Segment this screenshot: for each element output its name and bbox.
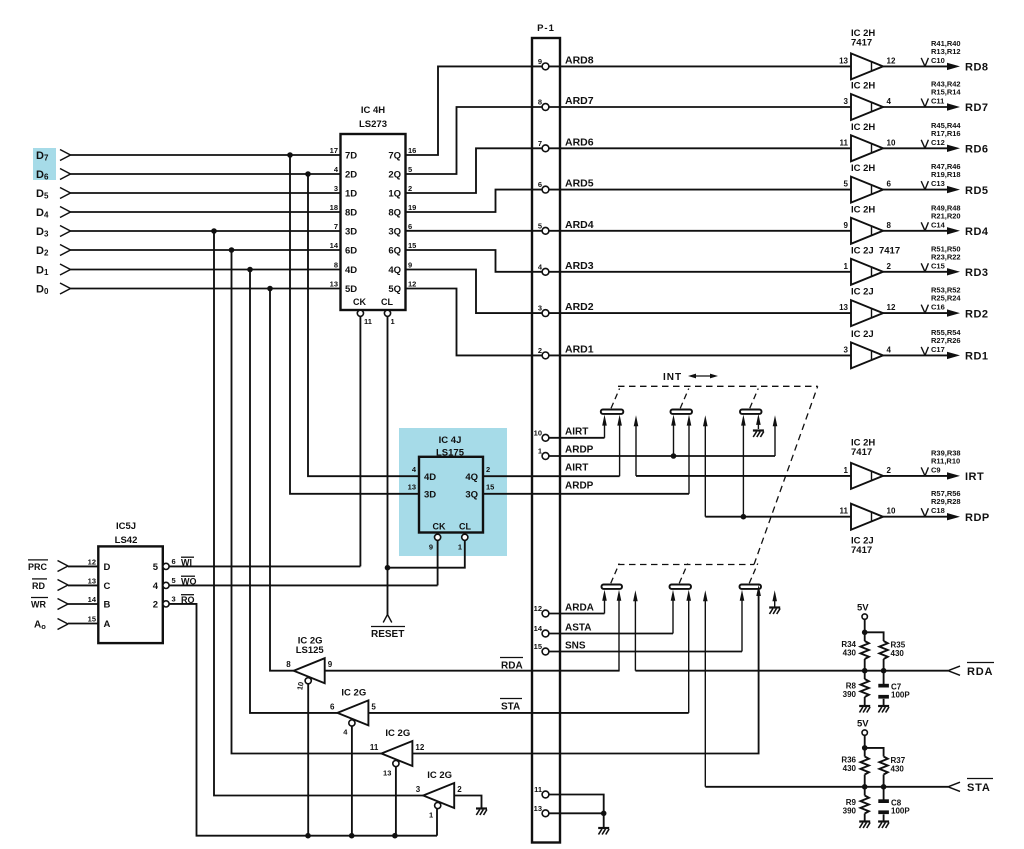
wire S4 right to RDA xyxy=(618,597,620,671)
junction RESET branch xyxy=(385,565,391,571)
wire S3/spare to RDP buffer xyxy=(703,415,851,520)
svg-text:ARD5: ARD5 xyxy=(565,178,594,190)
wire ASTA pin14 to S5 xyxy=(549,590,676,634)
svg-text:1: 1 xyxy=(538,447,542,456)
svg-text:5: 5 xyxy=(172,576,176,585)
buffer IC 2G gate C xyxy=(370,728,425,777)
svg-text:1Q: 1Q xyxy=(388,189,401,200)
svg-text:IC 2H: IC 2H xyxy=(851,122,875,133)
svg-text:5: 5 xyxy=(408,165,412,174)
wire to ground xyxy=(603,813,605,827)
wire D3 to IC2G pin3 xyxy=(214,231,423,796)
svg-text:RD7: RD7 xyxy=(965,102,989,114)
wire 8Q to P-1 pin 6 xyxy=(406,190,543,212)
wire D1 to LS273 xyxy=(71,269,341,271)
wire ARD2 to buffer xyxy=(549,312,851,314)
svg-text:ARD7: ARD7 xyxy=(565,95,594,107)
svg-text:11: 11 xyxy=(370,743,379,752)
wire RDA right segment xyxy=(635,666,960,675)
svg-text:430: 430 xyxy=(891,649,905,658)
svg-text:5Q: 5Q xyxy=(388,284,401,295)
wire R36/R37 to STA xyxy=(862,775,886,790)
svg-text:3D: 3D xyxy=(424,490,436,501)
svg-text:CL: CL xyxy=(459,522,471,532)
net W0 label xyxy=(181,576,197,586)
wire RESET branch to LS175 CL xyxy=(388,541,465,568)
wire ARD7 to buffer xyxy=(549,106,851,108)
svg-text:430: 430 xyxy=(843,764,857,773)
svg-text:7: 7 xyxy=(334,222,338,231)
wire 6Q to P-1 pin 4 xyxy=(406,250,543,272)
svg-text:3: 3 xyxy=(844,97,849,106)
svg-text:7417: 7417 xyxy=(851,545,872,556)
buffer RD1 driver 7417 xyxy=(844,329,892,369)
buffer RD5 driver 7417 xyxy=(844,163,892,203)
svg-text:9: 9 xyxy=(844,221,849,230)
svg-text:CK: CK xyxy=(353,297,366,307)
svg-text:A: A xyxy=(104,619,111,630)
svg-text:IC 2G: IC 2G xyxy=(427,770,452,781)
svg-text:C12: C12 xyxy=(931,138,945,147)
svg-text:3D: 3D xyxy=(345,227,357,238)
svg-text:15: 15 xyxy=(486,483,494,492)
power 5V (STA) xyxy=(857,719,869,736)
svg-text:5V: 5V xyxy=(857,719,869,730)
junction IC2G enable 13 xyxy=(392,833,398,839)
wire D7 to LS175 3D xyxy=(290,155,419,494)
svg-text:ARDA: ARDA xyxy=(565,603,594,614)
capacitor C7 100P xyxy=(878,671,910,705)
svg-text:STA: STA xyxy=(967,782,991,794)
svg-text:ARD6: ARD6 xyxy=(565,136,594,148)
svg-text:R15,R14: R15,R14 xyxy=(931,88,961,97)
wire 5V to resistors xyxy=(862,619,884,641)
svg-text:IC 2G: IC 2G xyxy=(385,728,410,739)
buffer IC 2G gate B xyxy=(330,687,376,736)
wire 1Q to P-1 pin 7 xyxy=(406,148,543,193)
svg-text:6: 6 xyxy=(538,180,542,189)
svg-text:7D: 7D xyxy=(345,151,357,162)
dashed linkage bus lower xyxy=(618,564,754,566)
value labels R55,R54 R27,R26 C17 xyxy=(921,328,961,356)
junction pins 11/13 xyxy=(601,811,607,817)
svg-text:RD8: RD8 xyxy=(965,62,989,74)
wire S1 spare contact to IRT buffer xyxy=(634,415,851,476)
svg-text:13: 13 xyxy=(330,280,338,289)
node D3 input xyxy=(36,226,71,239)
svg-text:3: 3 xyxy=(844,345,849,354)
svg-text:ARD1: ARD1 xyxy=(565,343,594,355)
svg-text:10: 10 xyxy=(534,428,542,437)
wire S4 spare to RDA right segment xyxy=(634,597,636,670)
svg-text:2: 2 xyxy=(538,346,542,355)
svg-text:5D: 5D xyxy=(345,284,357,295)
junction D3 tap xyxy=(211,228,217,234)
junction IC2G enable 4 xyxy=(349,833,355,839)
svg-text:IC 2H: IC 2H xyxy=(851,163,875,174)
svg-text:6: 6 xyxy=(172,557,176,566)
wire RD7 output xyxy=(883,103,960,110)
svg-text:10: 10 xyxy=(887,138,896,147)
svg-text:18: 18 xyxy=(330,203,338,212)
wire ARDA pin12 to S4 xyxy=(549,590,607,614)
value labels R43,R42 R15,R14 C11 xyxy=(921,80,961,108)
wire RD4 output xyxy=(883,227,960,234)
wire 7Q to P-1 pin 9 xyxy=(406,66,543,155)
node STA (right) xyxy=(967,779,993,795)
svg-text:2: 2 xyxy=(887,466,892,475)
svg-text:Ao: Ao xyxy=(34,619,46,631)
wire R0 to IC2G enables xyxy=(169,604,437,836)
svg-text:R29,R28: R29,R28 xyxy=(931,497,961,506)
wire LS175 CK to W0 xyxy=(437,540,439,585)
svg-text:IC 2G: IC 2G xyxy=(341,687,366,698)
wire ARD3 to buffer xyxy=(549,271,851,273)
wire RD6 output xyxy=(883,145,960,152)
svg-text:AIRT: AIRT xyxy=(565,427,588,438)
switch S6 (INT) xyxy=(740,564,762,589)
value labels R57,R56 R29,R28 C18 xyxy=(921,489,960,517)
svg-text:1: 1 xyxy=(458,543,462,552)
svg-text:100P: 100P xyxy=(891,807,910,816)
svg-text:2: 2 xyxy=(486,465,490,474)
wire pin 11 to ground xyxy=(549,795,604,814)
svg-text:ARD8: ARD8 xyxy=(565,54,594,66)
svg-text:6: 6 xyxy=(887,180,892,189)
buffer RD8 driver 7417 xyxy=(839,28,896,80)
highlight IC 4J LS175 xyxy=(399,428,507,556)
svg-text:1D: 1D xyxy=(345,189,357,200)
wire IC2G enable xyxy=(307,684,309,836)
svg-text:15: 15 xyxy=(88,615,96,624)
svg-text:12: 12 xyxy=(534,604,542,613)
svg-text:2: 2 xyxy=(153,600,158,611)
node RDA (right) xyxy=(967,663,994,679)
buffer IC 2G LS125 gate A xyxy=(286,636,332,691)
svg-text:3Q: 3Q xyxy=(465,490,478,501)
buffer IC 2G gate D xyxy=(416,770,462,819)
power 5V (RDA) xyxy=(857,603,869,620)
svg-text:1: 1 xyxy=(429,810,433,819)
svg-text:4Q: 4Q xyxy=(388,265,401,276)
svg-text:7: 7 xyxy=(538,139,542,148)
svg-text:RD5: RD5 xyxy=(965,185,989,197)
IC 4J LS175 quad flip-flop xyxy=(408,435,495,552)
node WR input xyxy=(31,598,98,610)
wire RD3 output xyxy=(883,268,960,275)
wire W1 to LS273 CK xyxy=(169,565,360,567)
svg-text:8D: 8D xyxy=(345,208,357,219)
wire enable to IC2G pin1 xyxy=(436,809,438,836)
svg-text:IC 2J 7417: IC 2J 7417 xyxy=(851,245,900,256)
svg-text:RD1: RD1 xyxy=(965,351,989,363)
svg-text:3Q: 3Q xyxy=(388,227,401,238)
wire ARD4 to buffer xyxy=(549,230,851,232)
svg-text:5: 5 xyxy=(538,221,542,230)
wire 3Q to P-1 pin 5 xyxy=(406,230,543,232)
svg-text:17: 17 xyxy=(330,146,338,155)
net R0 label xyxy=(181,595,195,605)
svg-text:8: 8 xyxy=(334,261,338,270)
junction D0 tap xyxy=(267,286,273,292)
svg-text:1: 1 xyxy=(844,262,849,271)
svg-text:13: 13 xyxy=(408,483,416,492)
svg-text:12: 12 xyxy=(887,303,896,312)
wire RD5 output xyxy=(883,186,960,193)
svg-text:12: 12 xyxy=(415,743,424,752)
wire W0 to LS175 CK xyxy=(169,584,438,586)
svg-text:4: 4 xyxy=(887,345,892,354)
op-amp?? no — IC 4H LS273 octal flip-flop xyxy=(330,105,417,326)
wire RD8 output xyxy=(883,63,960,70)
resistor R34 430 xyxy=(841,640,869,659)
wire IC2G enable xyxy=(351,726,353,836)
svg-text:RD6: RD6 xyxy=(965,144,989,156)
svg-text:5: 5 xyxy=(844,180,849,189)
svg-text:6D: 6D xyxy=(345,246,357,257)
wire D1 to IC2G pin6 xyxy=(250,270,337,713)
svg-text:IC5J: IC5J xyxy=(116,521,136,532)
svg-text:4D: 4D xyxy=(424,472,436,483)
switch S1 (INT) xyxy=(601,389,624,414)
junction D2 tap xyxy=(229,247,235,253)
wire D7 to LS273 xyxy=(71,154,341,156)
svg-text:CK: CK xyxy=(433,522,446,532)
value labels R41,R40 R13,R12 C10 xyxy=(921,39,960,67)
wire IC2G gate D input to ground xyxy=(454,796,481,808)
svg-text:AIRT: AIRT xyxy=(565,463,588,474)
wire AIRT pin10 to S1 xyxy=(549,415,607,438)
RESET terminal symbol xyxy=(371,615,405,641)
svg-text:15: 15 xyxy=(408,241,416,250)
svg-text:5V: 5V xyxy=(857,603,869,614)
svg-text:RESET: RESET xyxy=(371,629,404,640)
svg-text:3: 3 xyxy=(416,785,421,794)
node D1 input xyxy=(36,264,71,277)
value labels R47,R46 R19,R18 C13 xyxy=(921,162,960,190)
svg-text:11: 11 xyxy=(840,507,849,516)
svg-text:390: 390 xyxy=(843,807,857,816)
ground below C8 xyxy=(878,822,889,829)
svg-text:430: 430 xyxy=(843,649,857,658)
node D4 input xyxy=(36,207,71,220)
wire pin 13 to ground xyxy=(549,812,604,814)
svg-text:4D: 4D xyxy=(345,265,357,276)
svg-text:7417: 7417 xyxy=(851,447,872,458)
svg-text:2Q: 2Q xyxy=(388,170,401,181)
svg-text:2: 2 xyxy=(408,184,412,193)
wire LS273 CK to W1 xyxy=(359,316,361,566)
svg-text:11: 11 xyxy=(364,317,372,326)
net W1 label xyxy=(181,557,194,567)
svg-text:IC 4J: IC 4J xyxy=(439,435,462,446)
svg-text:ARD4: ARD4 xyxy=(565,219,594,231)
wire RD1 output xyxy=(883,352,960,359)
svg-text:R13,R12: R13,R12 xyxy=(931,47,961,56)
svg-text:C18: C18 xyxy=(931,506,945,515)
svg-text:D: D xyxy=(104,562,111,573)
svg-text:12: 12 xyxy=(408,280,416,289)
ground below R8 xyxy=(859,706,870,713)
switch S3 (INT) xyxy=(740,389,762,414)
svg-text:C9: C9 xyxy=(931,465,941,474)
svg-text:ARDP: ARDP xyxy=(565,445,594,456)
svg-text:1: 1 xyxy=(391,317,395,326)
svg-text:C17: C17 xyxy=(931,345,945,354)
dashed linkage bus upper xyxy=(618,385,818,387)
svg-text:PRC: PRC xyxy=(28,562,48,572)
svg-text:13: 13 xyxy=(383,768,391,777)
wire STA left segment xyxy=(368,712,688,714)
svg-text:2: 2 xyxy=(887,262,892,271)
wire LS175 3Q to S2 right (ARDP) xyxy=(483,415,691,494)
svg-text:15: 15 xyxy=(534,642,542,651)
svg-text:IC 2J: IC 2J xyxy=(851,329,874,340)
svg-text:ARD2: ARD2 xyxy=(565,301,594,313)
node D7 input xyxy=(36,150,71,163)
wire D6 to LS175 4D xyxy=(308,174,419,476)
wire 2Q to P-1 pin 8 xyxy=(406,107,543,174)
ground below C7 xyxy=(878,706,889,713)
wire S3 right contact to ground xyxy=(757,418,759,429)
wire D6 to LS273 xyxy=(71,173,341,175)
wire D0 to IC2G pin8 xyxy=(270,289,294,671)
svg-text:16: 16 xyxy=(408,146,416,155)
svg-text:9: 9 xyxy=(328,660,333,669)
svg-text:STA: STA xyxy=(501,702,520,713)
junction D1 tap xyxy=(247,267,253,273)
svg-text:13: 13 xyxy=(88,576,96,585)
wire LS273 CL / RESET net xyxy=(387,316,389,614)
svg-text:RDA: RDA xyxy=(501,661,523,672)
svg-text:10: 10 xyxy=(887,507,896,516)
net STA label (mid) xyxy=(500,699,522,713)
svg-text:10: 10 xyxy=(295,681,305,691)
svg-text:R11,R10: R11,R10 xyxy=(931,456,960,465)
junction IC2G enable 10 xyxy=(305,833,311,839)
svg-text:4: 4 xyxy=(887,97,892,106)
svg-text:RD: RD xyxy=(32,581,45,591)
wire RDA left segment xyxy=(325,670,620,672)
resistor R9 390 xyxy=(843,787,869,821)
svg-text:100P: 100P xyxy=(891,691,910,700)
svg-text:C15: C15 xyxy=(931,261,945,270)
svg-text:6Q: 6Q xyxy=(388,246,401,257)
svg-text:3: 3 xyxy=(538,304,542,313)
connector P-1 xyxy=(532,23,560,843)
svg-text:R27,R26: R27,R26 xyxy=(931,336,961,345)
node D0 input xyxy=(36,283,71,296)
buffer RD7 driver 7417 xyxy=(844,81,892,121)
svg-text:R19,R18: R19,R18 xyxy=(931,170,961,179)
wire D5 to LS273 xyxy=(71,192,341,194)
wire 4Q to P-1 pin 3 xyxy=(406,270,543,314)
svg-text:2: 2 xyxy=(457,785,462,794)
svg-text:C14: C14 xyxy=(931,220,946,229)
svg-text:7417: 7417 xyxy=(851,37,872,48)
wire S5 spare to STA right segment xyxy=(704,597,706,787)
svg-text:C16: C16 xyxy=(931,303,945,312)
net RDA label (mid) xyxy=(500,658,523,672)
svg-text:9: 9 xyxy=(538,57,542,66)
resistor R36 430 xyxy=(841,756,869,775)
wire ARDP pin1 net xyxy=(549,415,778,459)
net INT label xyxy=(663,372,718,383)
ground at P-1 xyxy=(598,828,609,835)
svg-text:RD3: RD3 xyxy=(965,267,989,279)
wire D3 to LS273 xyxy=(71,230,341,232)
svg-text:19: 19 xyxy=(408,203,416,212)
grounded spare contact xyxy=(772,590,777,606)
svg-text:12: 12 xyxy=(88,557,96,566)
svg-text:ASTA: ASTA xyxy=(565,623,591,634)
wire 5Q to P-1 pin 2 xyxy=(406,289,543,356)
svg-text:RDP: RDP xyxy=(965,512,990,524)
value labels R53,R52 R25,R24 C16 xyxy=(921,286,961,314)
svg-text:8: 8 xyxy=(538,98,542,107)
wire D0 to LS273 xyxy=(71,288,341,290)
svg-text:IC 2J: IC 2J xyxy=(851,287,874,298)
wire ARD6 to buffer xyxy=(549,147,851,149)
buffer RD4 driver 7417 xyxy=(844,204,892,244)
wire STA right segment xyxy=(705,782,960,791)
IC 5J LS42 decoder xyxy=(88,521,176,643)
svg-text:IRT: IRT xyxy=(965,471,984,483)
svg-text:7Q: 7Q xyxy=(388,151,401,162)
ground at lower switch group xyxy=(769,608,780,615)
svg-text:R21,R20: R21,R20 xyxy=(931,211,961,220)
svg-text:P-1: P-1 xyxy=(537,23,555,34)
svg-text:5: 5 xyxy=(371,702,376,711)
wire 5V to resistors (STA) xyxy=(862,735,884,756)
arrow S6 right contact xyxy=(756,585,761,596)
svg-text:B: B xyxy=(104,600,111,611)
junction D6 tap xyxy=(305,171,311,177)
node Ao input xyxy=(34,619,98,631)
svg-text:C10: C10 xyxy=(931,56,945,65)
svg-text:430: 430 xyxy=(891,765,905,774)
value labels R39,R38 R11,R10 C9 xyxy=(921,448,960,476)
svg-text:2D: 2D xyxy=(345,170,357,181)
svg-text:R25,R24: R25,R24 xyxy=(931,294,961,303)
svg-text:13: 13 xyxy=(839,303,848,312)
svg-text:11: 11 xyxy=(534,785,542,794)
svg-text:5: 5 xyxy=(153,562,159,573)
buffer IRT driver 7417 xyxy=(844,437,892,489)
svg-text:3: 3 xyxy=(172,594,176,603)
svg-text:1: 1 xyxy=(844,466,849,475)
svg-text:RD4: RD4 xyxy=(965,226,989,238)
svg-text:C11: C11 xyxy=(931,97,944,106)
junction D7 tap xyxy=(287,152,293,158)
svg-text:ARD3: ARD3 xyxy=(565,260,594,272)
buffer RD3 driver 7417 xyxy=(844,245,901,284)
wire ARD1 to buffer xyxy=(549,354,851,356)
svg-text:14: 14 xyxy=(88,595,97,604)
svg-text:RDA: RDA xyxy=(967,666,993,678)
value labels R45,R44 R17,R16 C12 xyxy=(921,121,961,149)
svg-text:R17,R16: R17,R16 xyxy=(931,129,961,138)
value labels R49,R48 R21,R20 C14 xyxy=(921,203,960,231)
wire ARD5 to buffer xyxy=(549,189,851,191)
resistor R8 390 xyxy=(843,671,869,705)
svg-text:11: 11 xyxy=(840,138,849,147)
svg-text:SNS: SNS xyxy=(565,641,586,652)
switch S2 (INT) xyxy=(671,389,693,414)
node PRC input xyxy=(28,560,98,572)
wire S5 right to STA xyxy=(688,597,690,713)
svg-text:RD2: RD2 xyxy=(965,308,989,320)
